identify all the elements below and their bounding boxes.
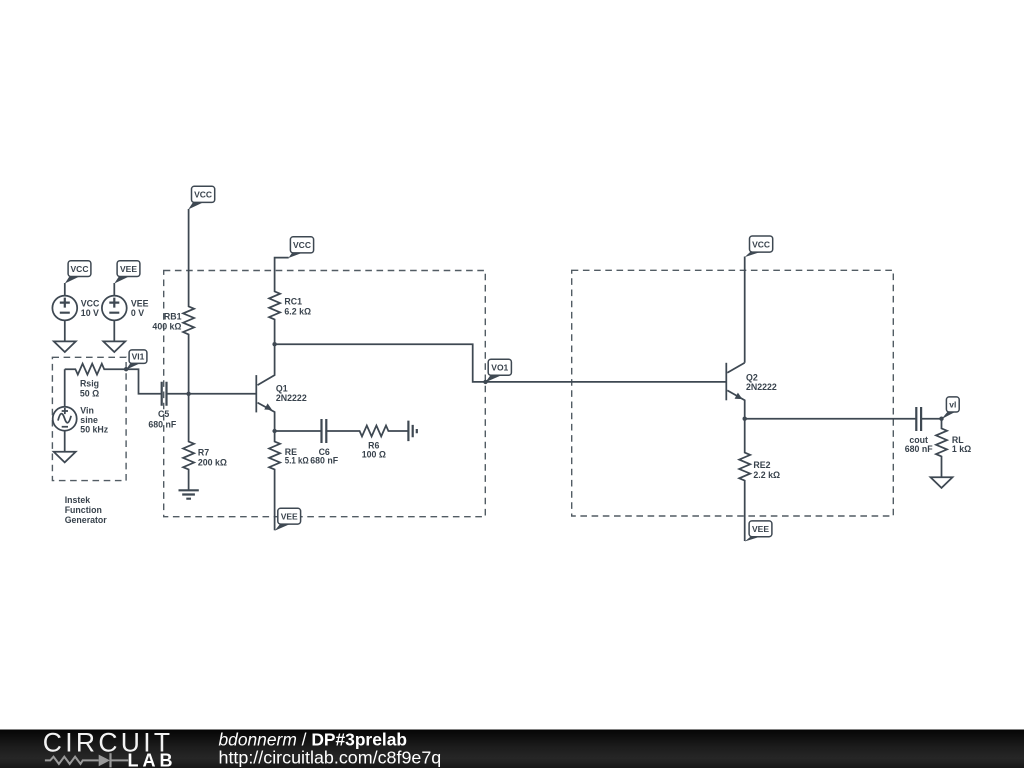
flag VCC on Q2	[745, 236, 773, 257]
resistor RE2 2.2k	[739, 419, 780, 541]
svg-text:VCC: VCC	[71, 264, 89, 274]
capacitor C5 680n	[148, 382, 176, 430]
svg-text:680 nF: 680 nF	[148, 419, 176, 429]
svg-text:VCC: VCC	[293, 240, 311, 250]
svg-text:2.2 kΩ: 2.2 kΩ	[753, 470, 780, 480]
resistor RL 1k	[936, 419, 971, 477]
ground under R7	[179, 490, 199, 498]
node output junction	[939, 417, 943, 421]
svg-text:RE2: RE2	[753, 460, 770, 470]
resistor R7 200k	[183, 394, 227, 491]
ground under V1	[54, 341, 76, 352]
svg-text:Q1: Q1	[276, 384, 288, 394]
svg-text:VO1: VO1	[491, 363, 508, 373]
svg-text:VCC: VCC	[194, 190, 212, 200]
wire emitter to C6	[275, 430, 322, 432]
svg-text:0 V: 0 V	[131, 308, 144, 318]
flag VCC on RB1	[188, 186, 214, 209]
source Vin sine	[53, 369, 109, 451]
svg-text:400 kΩ: 400 kΩ	[152, 321, 181, 331]
svg-text:200 kΩ: 200 kΩ	[198, 457, 227, 467]
dashed box amplifier stage 2	[572, 270, 894, 516]
transistor Q2 2N2222	[726, 363, 777, 419]
flag VO1	[485, 359, 511, 382]
svg-text:6.2 kΩ: 6.2 kΩ	[284, 306, 311, 316]
wire Q2 emitter to cout	[745, 418, 916, 420]
flag VCC on V1	[65, 261, 91, 284]
svg-text:Rsig: Rsig	[80, 379, 99, 389]
svg-text:http://circuitlab.com/c8f9e7q: http://circuitlab.com/c8f9e7q	[219, 748, 442, 768]
svg-text:50 kHz: 50 kHz	[80, 425, 108, 435]
svg-text:Vin: Vin	[80, 405, 94, 415]
resistor RE 5.1k	[269, 431, 309, 530]
svg-text:100 Ω: 100 Ω	[362, 449, 386, 459]
flag VI1	[126, 350, 147, 370]
node base junction	[186, 392, 190, 396]
flag vl	[942, 397, 960, 419]
svg-text:Generator: Generator	[65, 515, 108, 525]
flag VEE on V2	[114, 261, 140, 284]
svg-text:VEE: VEE	[120, 264, 137, 274]
bottom bar	[0, 727, 1024, 768]
CircuitLab logo resistor-diode graphic	[45, 753, 128, 767]
svg-text:sine: sine	[80, 415, 98, 425]
svg-text:50 Ω: 50 Ω	[80, 388, 99, 398]
svg-text:RB1: RB1	[164, 312, 182, 322]
svg-text:VEE: VEE	[281, 512, 298, 522]
resistor RB1 400k	[152, 209, 194, 394]
svg-text:5.1 kΩ: 5.1 kΩ	[285, 455, 309, 465]
svg-text:RC1: RC1	[284, 297, 302, 307]
svg-text:10 V: 10 V	[81, 308, 99, 318]
svg-text:VEE: VEE	[131, 299, 149, 309]
node VO1 junction	[483, 380, 487, 384]
svg-text:VCC: VCC	[752, 239, 770, 249]
svg-text:VCC: VCC	[81, 299, 100, 309]
svg-text:VI1: VI1	[132, 352, 145, 362]
voltage source VCC (V1)	[52, 283, 100, 341]
svg-text:bdonnerm / DP#3prelab: bdonnerm / DP#3prelab	[219, 729, 408, 749]
node collector junction	[272, 342, 276, 346]
flag VEE under RE2	[745, 521, 772, 542]
svg-text:2N2222: 2N2222	[746, 382, 777, 392]
wire C5 to Q1 base	[167, 393, 256, 395]
resistor Rsig 50	[65, 364, 126, 399]
wire cout to output node	[921, 418, 941, 420]
resistor RC1 6.2k	[269, 258, 311, 345]
wire VI1 to C5	[126, 369, 161, 394]
capacitor cout 680n	[905, 407, 933, 454]
dashed box amplifier stage 1	[164, 271, 486, 517]
svg-text:R7: R7	[198, 448, 209, 458]
svg-text:LAB: LAB	[128, 750, 177, 768]
ground under RL	[931, 477, 953, 488]
capacitor C6 680n	[310, 419, 338, 465]
svg-text:Q2: Q2	[746, 373, 758, 383]
svg-text:Instek: Instek	[65, 495, 91, 505]
svg-text:C5: C5	[158, 409, 169, 419]
voltage source VEE (V2)	[102, 283, 149, 341]
ground under Vin	[54, 452, 76, 463]
flag VEE under RE	[275, 508, 301, 531]
svg-text:vl: vl	[949, 399, 956, 409]
svg-text:680 nF: 680 nF	[310, 455, 338, 465]
transistor Q1 2N2222	[256, 344, 307, 431]
resistor R6 100	[326, 426, 408, 460]
svg-text:680 nF: 680 nF	[905, 444, 933, 454]
flag VCC on RC1	[288, 237, 313, 258]
wire VCC to Q2 collector	[744, 257, 746, 363]
svg-text:2N2222: 2N2222	[276, 393, 307, 403]
ground under V2	[103, 341, 125, 352]
wire collector to VO1 to Q2 base	[275, 344, 726, 382]
dashed box Instek Function Generator	[52, 357, 126, 525]
node VI1 junction	[124, 367, 128, 371]
svg-text:1 kΩ: 1 kΩ	[952, 444, 971, 454]
svg-text:Function: Function	[65, 505, 102, 515]
node emitter junction Q1	[272, 429, 276, 433]
svg-text:VEE: VEE	[752, 524, 769, 534]
node emitter junction Q2	[743, 417, 747, 421]
ground right of R6	[408, 421, 416, 442]
